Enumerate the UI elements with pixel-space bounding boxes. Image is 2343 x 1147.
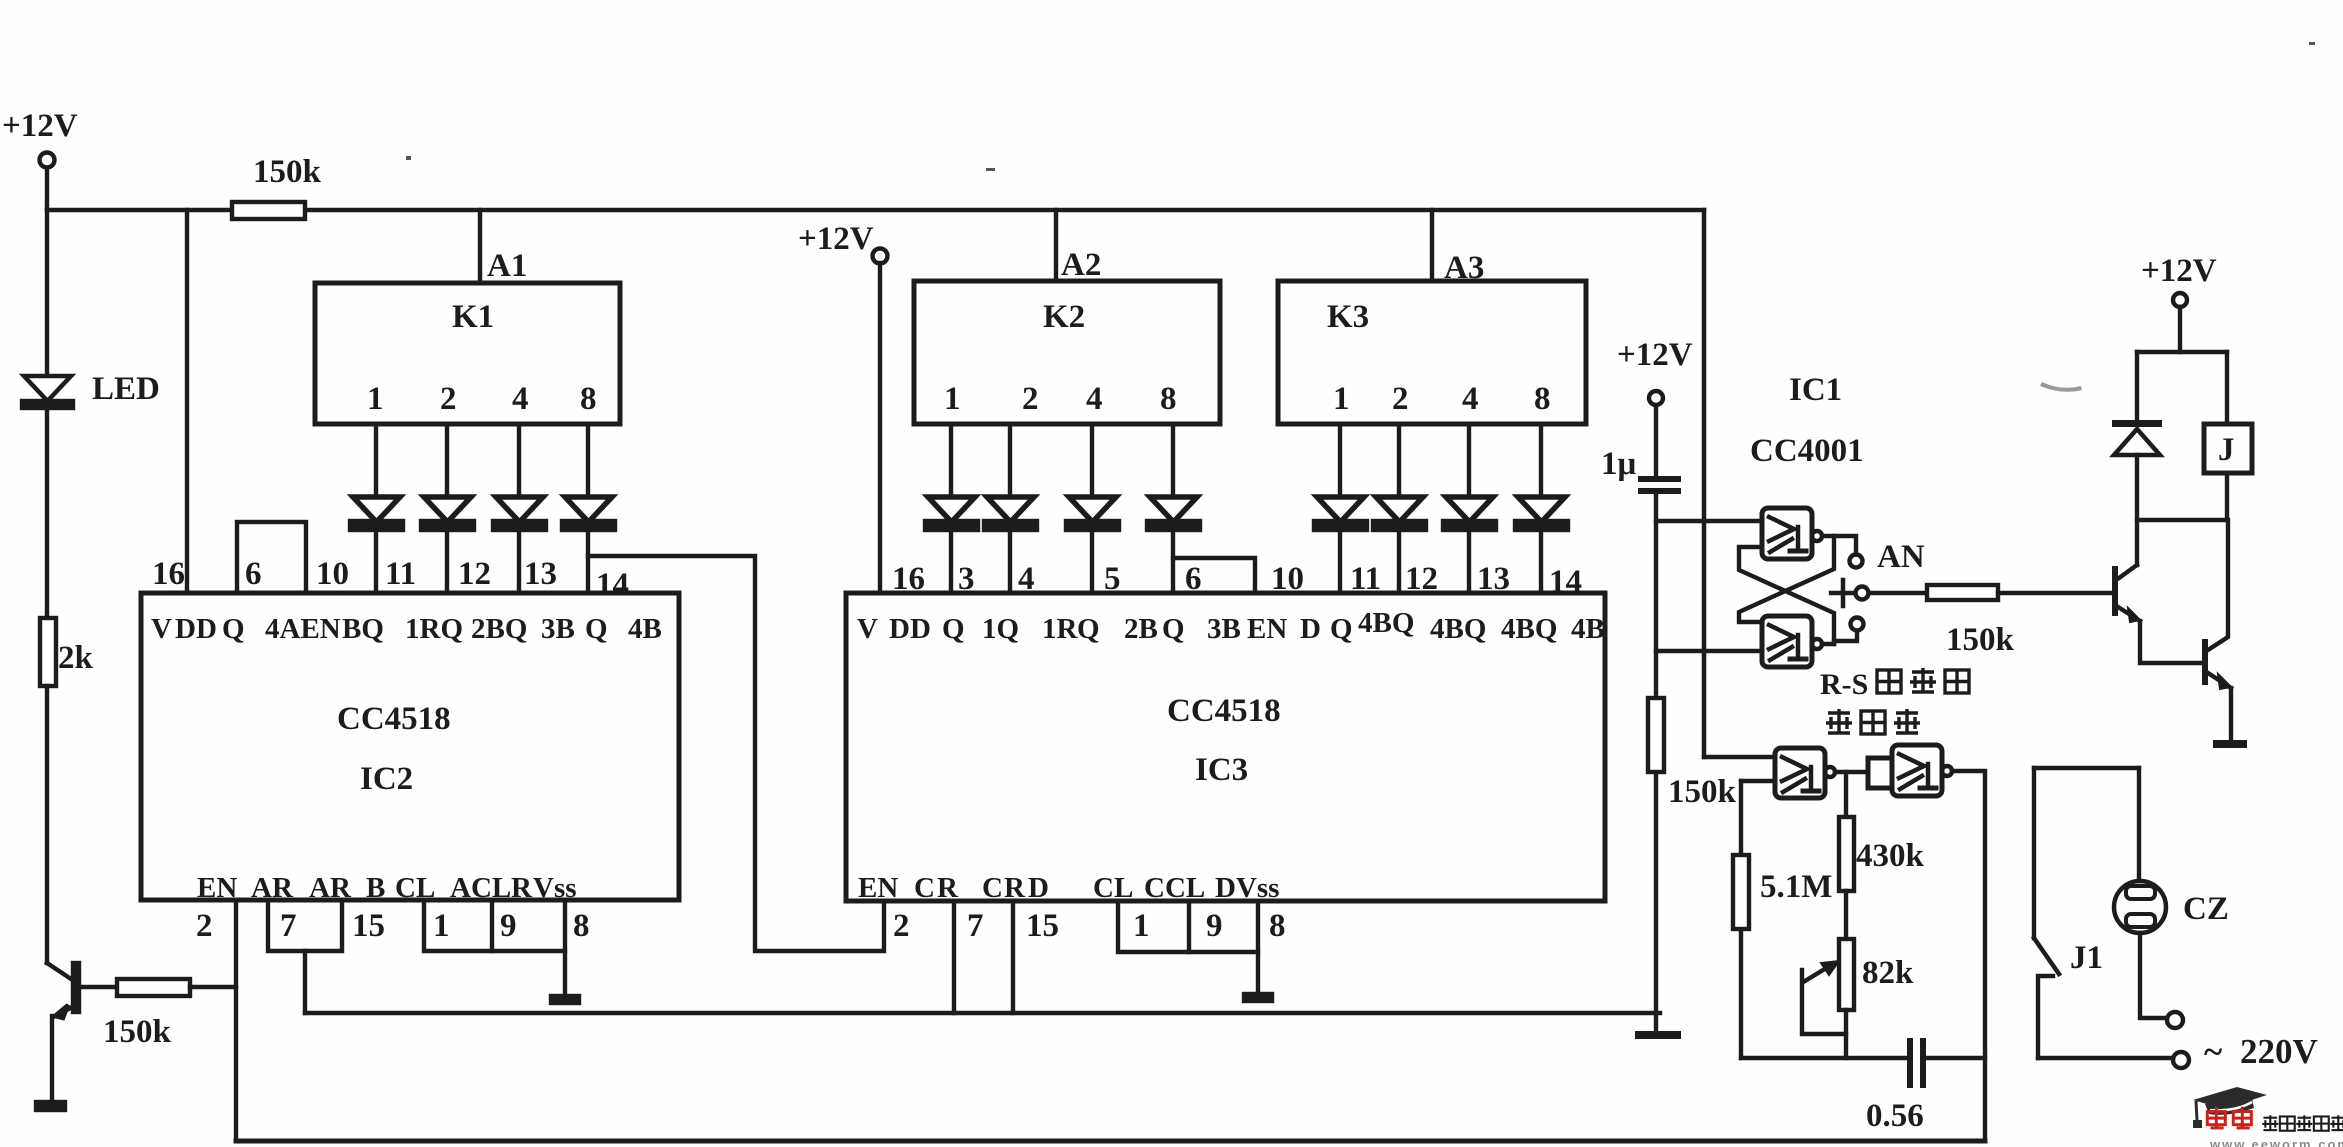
wire IC3 pin8 Vss [1256, 901, 1260, 994]
pin7-pin15 link box (IC2) [268, 900, 342, 951]
resistor 430k [1839, 817, 1854, 891]
svg-text:CL: CL [1093, 872, 1133, 904]
wire cap down to ground (node B) [1654, 494, 1658, 1031]
svg-text:AN: AN [1877, 539, 1925, 575]
svg-text:8: 8 [1160, 381, 1177, 417]
wire CZ bottom to 220V upper terminal [2140, 933, 2167, 1018]
svg-text:150k: 150k [253, 154, 322, 190]
resistor 5.1M [1733, 855, 1749, 929]
wire K2 pin4 [1090, 424, 1094, 497]
svg-text:www.eeworm.com: www.eeworm.com [2209, 1137, 2343, 1147]
labels IC2 bottom pin names [197, 872, 577, 904]
svg-text:13: 13 [1477, 561, 1510, 597]
svg-text:150k: 150k [1946, 622, 2015, 658]
wire diode branch [2135, 352, 2139, 420]
ground (Q1 emitter) [36, 1102, 65, 1110]
svg-text:D: D [1300, 613, 1321, 645]
svg-text:2BQ: 2BQ [471, 613, 527, 645]
wire AN pole to 150k [1869, 591, 1927, 595]
svg-text:IC3: IC3 [1195, 752, 1248, 788]
svg-text:8: 8 [573, 908, 590, 944]
svg-text:6: 6 [1185, 561, 1202, 597]
svg-text:4: 4 [512, 381, 529, 417]
resistor 2k [40, 618, 56, 686]
wire IC3 pin7 to ground rail [952, 901, 956, 1013]
svg-text:IC1: IC1 [1789, 372, 1842, 408]
svg-text:1: 1 [944, 381, 961, 417]
svg-text:ACL: ACL [450, 872, 511, 904]
svg-text:R: R [937, 872, 959, 904]
resistor 150k (vertical on node B) [1648, 698, 1664, 772]
svg-text:DD: DD [175, 613, 217, 645]
svg-text:AR: AR [251, 872, 294, 904]
svg-text:430k: 430k [1856, 838, 1925, 874]
wire D23 to IC3 pin5 [1090, 529, 1094, 593]
gate U1c symbol [1782, 757, 1807, 781]
pin9 link box (IC3) [1189, 950, 1258, 954]
transistor Q2 emitter [2118, 607, 2140, 621]
svg-text:6: 6 [245, 556, 262, 592]
svg-text:13: 13 [524, 556, 557, 592]
svg-text:~: ~ [2204, 1032, 2222, 1071]
svg-text:2: 2 [1392, 381, 1409, 417]
diode D13 [496, 497, 543, 522]
transistor Q2 base bar [2112, 566, 2118, 616]
svg-text:4BQ: 4BQ [1430, 613, 1486, 645]
wire D14 to IC2 pin14 [586, 529, 590, 593]
IC U2 CC4518 box [141, 593, 679, 900]
svg-text:DD: DD [889, 613, 931, 645]
svg-text:2k: 2k [58, 640, 94, 676]
svg-text:4: 4 [1018, 561, 1035, 597]
gate U1a output bubble [1812, 531, 1822, 541]
svg-text:4B: 4B [628, 613, 662, 645]
svg-text:2: 2 [440, 381, 457, 417]
diode D22 [987, 497, 1034, 522]
svg-text:A2: A2 [1061, 247, 1101, 283]
wire 430k branch down [1844, 772, 1848, 817]
svg-text:12: 12 [458, 556, 491, 592]
svg-text:4BQ: 4BQ [1501, 613, 1557, 645]
pin1 link box (IC3) [1118, 901, 1189, 952]
socket CZ body [2114, 881, 2166, 933]
resistor 150k (AN to Darlington) [1927, 585, 1998, 600]
svg-text:EN: EN [197, 872, 237, 904]
wire J1-CZ top rail [2034, 766, 2139, 770]
svg-text:CC4518: CC4518 [337, 701, 451, 737]
capacitor 0.56 [1907, 1038, 1913, 1088]
switch J1 blade [2034, 938, 2059, 974]
wire K2 pin8 [1171, 424, 1175, 497]
svg-text:10: 10 [1271, 561, 1304, 597]
svg-text:220V: 220V [2240, 1032, 2318, 1071]
wire +12V terminal to bus [45, 168, 49, 208]
pin6-pin10 link box (IC2) [237, 522, 306, 593]
svg-text:AR: AR [309, 872, 352, 904]
svg-text:3B: 3B [1207, 613, 1241, 645]
svg-text:Vss: Vss [533, 872, 577, 904]
label oscillator (chinese) [1826, 709, 1920, 734]
wire D31 to IC3 pin11 [1338, 529, 1342, 593]
wire Q3 emitter to ground [2229, 688, 2233, 741]
svg-text:R-S: R-S [1820, 668, 1868, 701]
svg-text:CZ: CZ [2183, 891, 2229, 927]
gate U1d input stub box [1868, 758, 1892, 788]
svg-text:Q: Q [222, 613, 245, 645]
svg-text:8: 8 [1269, 908, 1286, 944]
svg-text:12: 12 [1405, 561, 1438, 597]
wire D24 to IC3 pin6 [1171, 529, 1175, 593]
switch AN pole tick [1841, 580, 1846, 606]
svg-text:82k: 82k [1862, 955, 1914, 991]
wire D32 to IC3 pin12 [1397, 529, 1401, 593]
svg-text:2: 2 [196, 908, 213, 944]
svg-text:150k: 150k [1668, 774, 1737, 810]
wire bottom rail [236, 1139, 1985, 1144]
gate U1b symbol [1769, 625, 1794, 649]
wire K2 pin1 [949, 424, 953, 497]
wire J1 to 220V lower terminal [2038, 1056, 2173, 1060]
diode D11 [353, 497, 400, 522]
wire pot bottom to RC rail [1844, 1010, 1848, 1058]
gate U1d output bubble [1942, 766, 1952, 776]
watermark red chongchong characters [2207, 1107, 2225, 1128]
diode D21 [928, 497, 975, 522]
wire node A1 feeder [478, 210, 482, 283]
wire node A2 feeder [1054, 210, 1058, 281]
svg-text:Q: Q [1162, 613, 1185, 645]
capacitor 1u [1638, 476, 1681, 482]
svg-text:1: 1 [433, 908, 450, 944]
wire D13 to IC2 pin13 [517, 529, 521, 593]
transistor Q3 base bar [2202, 639, 2208, 685]
svg-text:7: 7 [967, 908, 984, 944]
wire J1 lower leg [2038, 976, 2053, 1058]
wire IC3 pin15 to ground rail [1011, 901, 1015, 1013]
wire K1 pin8 [586, 424, 590, 497]
relay K2 box [914, 281, 1220, 424]
svg-text:V: V [151, 613, 172, 645]
svg-text:CC4518: CC4518 [1167, 693, 1281, 729]
diode D12 [424, 497, 471, 522]
svg-text:8: 8 [580, 381, 597, 417]
wire J to bottom rail [2225, 473, 2229, 520]
wire 150k to Q2 base [1998, 591, 2113, 595]
svg-text:8: 8 [1534, 381, 1551, 417]
svg-text:1: 1 [367, 381, 384, 417]
wire D11 to IC2 pin11 [374, 529, 378, 593]
svg-text:2B: 2B [1124, 613, 1158, 645]
svg-text:4BQ: 4BQ [1358, 607, 1414, 639]
wire terminal to coil rail [2178, 307, 2182, 352]
relay K1 box [315, 283, 620, 424]
wire ground rail (middle) [305, 1011, 1660, 1016]
svg-text:3: 3 [958, 561, 975, 597]
wire relay branch [2225, 352, 2229, 424]
labels IC2 top pin names [151, 613, 662, 645]
wire D21 to IC3 pin3 [949, 529, 953, 593]
svg-text:CL: CL [395, 872, 435, 904]
svg-text:J: J [2218, 432, 2235, 468]
svg-text:3B: 3B [541, 613, 575, 645]
svg-text:Q: Q [585, 613, 608, 645]
diode LED [24, 376, 71, 401]
svg-text:EN: EN [1247, 613, 1287, 645]
wire diode to bottom rail [2135, 455, 2139, 565]
svg-text:DVss: DVss [1215, 872, 1279, 904]
svg-text:1: 1 [1133, 908, 1150, 944]
wire Q2 emitter to Q3 base [2140, 621, 2202, 663]
socket CZ hole upper [2126, 886, 2155, 899]
wire U1b output to AN bottom contact [1822, 631, 1857, 644]
wire D22 to IC3 pin4 [1008, 529, 1012, 593]
diode freewheel (across J) [2112, 420, 2162, 427]
svg-text:5: 5 [1104, 561, 1121, 597]
svg-text:9: 9 [1206, 908, 1223, 944]
wire +12V bus (top horizontal) [47, 208, 1704, 213]
gate U1a symbol [1769, 517, 1794, 541]
svg-text:10: 10 [316, 556, 349, 592]
wire K3 pin2 [1397, 424, 1401, 497]
gate U1c box [1775, 748, 1825, 798]
wire RS gate1 input [1656, 519, 1762, 523]
wire IC2 4B carry to IC3 EN [588, 556, 884, 951]
svg-text:Q: Q [1077, 613, 1100, 645]
svg-text:15: 15 [352, 908, 385, 944]
svg-text:4: 4 [1462, 381, 1479, 417]
svg-text:+12V: +12V [1617, 337, 1693, 373]
transistor Q3 emitter [2208, 673, 2231, 688]
resistor 150k (Q1 base) [117, 979, 190, 996]
wire Q1 base [79, 985, 117, 989]
labels IC3 top pin names [857, 607, 1605, 645]
scan specks [406, 42, 2315, 392]
wire IC2 pin2 EN down [234, 900, 238, 1141]
pin1 link box (IC2) [424, 900, 492, 951]
socket CZ hole lower [2126, 914, 2155, 927]
wire J1 upper leg [2032, 768, 2036, 938]
wire U1a output to AN top contact [1822, 536, 1856, 554]
gate U1d box [1892, 745, 1942, 796]
svg-text:LED: LED [92, 371, 160, 407]
node +12V terminal (middle) [873, 249, 888, 264]
gate U1c output bubble [1825, 767, 1835, 777]
svg-text:A3: A3 [1444, 250, 1484, 286]
ground (Q3 emitter) [2213, 740, 2247, 748]
watermark graduation cap [2193, 1087, 2267, 1109]
svg-text:1R: 1R [1042, 613, 1079, 645]
svg-text:14: 14 [596, 567, 629, 603]
svg-text:D: D [1028, 872, 1049, 904]
svg-text:14: 14 [1549, 564, 1582, 600]
wire coil bottom rail [2137, 518, 2227, 522]
wire K1 pin4 [517, 424, 521, 497]
wire D34 to IC3 pin14 [1539, 529, 1543, 593]
wire rail to Q3 collector [2119, 565, 2137, 578]
wire feedback rail with 5.1M [1739, 781, 1743, 1058]
svg-text:B: B [366, 872, 385, 904]
wire K3 pin8 [1539, 424, 1543, 497]
wire K1 pin1 [374, 424, 378, 497]
wire RC bottom rail [1741, 1056, 1985, 1060]
svg-text:K1: K1 [452, 299, 494, 335]
wire U1b output cross-couple to U1a input [1739, 547, 1834, 644]
svg-text:0.56: 0.56 [1866, 1098, 1924, 1134]
gate U1b box [1762, 616, 1812, 667]
wire IC2 pin8 Vss [563, 900, 567, 996]
svg-text:CC4001: CC4001 [1750, 433, 1864, 469]
wire RS gate2 input [1656, 649, 1762, 653]
svg-text:BQ: BQ [342, 613, 384, 645]
wire K3 pin4 [1467, 424, 1471, 497]
svg-text:J1: J1 [2070, 940, 2103, 976]
svg-text:11: 11 [1350, 561, 1381, 597]
svg-text:+12V: +12V [798, 221, 874, 257]
wire Q3 collector [2208, 520, 2228, 650]
watermark site name characters [2262, 1115, 2278, 1130]
svg-text:A1: A1 [487, 248, 527, 284]
wire wiper to pot bottom [1802, 970, 1846, 1034]
svg-text:Q: Q [942, 613, 965, 645]
node AN pole [1856, 587, 1869, 600]
wire 2k to Q1 collector [45, 686, 49, 963]
wire K1 pin2 [445, 424, 449, 497]
svg-text:EN: EN [858, 872, 898, 904]
svg-text:15: 15 [1026, 908, 1059, 944]
gate U1d symbol [1899, 754, 1924, 778]
svg-text:7: 7 [280, 908, 297, 944]
wire D33 to IC3 pin13 [1467, 529, 1471, 593]
svg-text:R: R [511, 872, 533, 904]
svg-text:16: 16 [152, 556, 185, 592]
diode D33 [1446, 497, 1493, 522]
diode D24 [1150, 497, 1197, 522]
pot wiper arrow [1805, 967, 1828, 981]
node +12V terminal (relay) [2173, 293, 2187, 307]
gate U1b output bubble [1812, 639, 1822, 649]
svg-text:2: 2 [893, 908, 910, 944]
wire U1a output cross-couple to U1b input [1739, 536, 1834, 622]
label R-S flip-flop (chinese) [1820, 668, 1969, 701]
svg-text:R: R [1004, 872, 1026, 904]
gate U1a box [1762, 508, 1812, 559]
wire U1c out to U1d in [1835, 770, 1868, 774]
wire K2 pin2 [1008, 424, 1012, 497]
wire D12 to IC2 pin12 [445, 529, 449, 593]
svg-text:C: C [914, 872, 935, 904]
node ~220V upper terminal [2167, 1012, 2183, 1028]
svg-text:1: 1 [1333, 381, 1350, 417]
IC U3 CC4518 box [846, 593, 1605, 901]
svg-text:K3: K3 [1327, 299, 1369, 335]
relay K3 box [1278, 281, 1586, 424]
diode D31 [1317, 497, 1364, 522]
wire bus-end to osc gate3 input [1704, 755, 1775, 759]
node AN top contact [1850, 555, 1863, 568]
ground (IC3 Vss) [1244, 994, 1272, 1001]
resistor 150k (series in +12V bus) [232, 202, 305, 219]
svg-text:4B: 4B [1571, 613, 1605, 645]
svg-text:K2: K2 [1043, 299, 1085, 335]
svg-text:IC2: IC2 [360, 761, 413, 797]
wire terminal to capacitor [1654, 405, 1658, 476]
ground (IC2 Vss) [551, 996, 579, 1003]
svg-text:1μ: 1μ [1601, 446, 1637, 482]
wire feedback rail to U1c input [1741, 779, 1775, 783]
svg-text:4AEN: 4AEN [265, 613, 341, 645]
node +12V terminal (IC1) [1649, 391, 1663, 405]
svg-text:2: 2 [1022, 381, 1039, 417]
labels IC3 bottom pin names [858, 872, 1279, 904]
svg-text:+12V: +12V [2141, 253, 2217, 289]
diode D32 [1376, 497, 1423, 522]
svg-text:150k: 150k [103, 1014, 172, 1050]
wire LED to 2k [45, 408, 49, 618]
wire U1d output down to bottom rail [1952, 771, 1985, 1141]
node AN bottom contact [1851, 618, 1864, 631]
node ~220V lower terminal [2173, 1052, 2189, 1068]
relay coil J box [2204, 424, 2252, 473]
svg-text:4: 4 [1086, 381, 1103, 417]
diode D23 [1069, 497, 1116, 522]
svg-text:CCL: CCL [1144, 872, 1205, 904]
wire CZ top [2137, 768, 2141, 881]
svg-text:V: V [857, 613, 878, 645]
svg-text:11: 11 [385, 556, 416, 592]
svg-text:1Q: 1Q [982, 613, 1019, 645]
wire coil top rail [2137, 350, 2227, 354]
diode D34 [1518, 497, 1565, 522]
wire K3 pin1 [1338, 424, 1342, 497]
wire 430k to 82k [1844, 891, 1848, 939]
wire pin7 box to ground rail [303, 951, 307, 1013]
wire bus corner down (right end of bus) [1702, 210, 1707, 757]
wire +12V terminal2 to IC3 pin16 [878, 263, 882, 593]
node +12V terminal (top-left) [40, 153, 55, 168]
potentiometer 82k [1839, 939, 1854, 1010]
svg-text:5.1M: 5.1M [1760, 869, 1832, 905]
svg-text:Q: Q [1330, 613, 1353, 645]
wire bus tap to IC2 pin16 [185, 210, 189, 593]
svg-text:9: 9 [500, 908, 517, 944]
wire node A3 feeder [1430, 210, 1434, 281]
ground (node B bottom) [1635, 1031, 1681, 1039]
wire 150k to IC2 pin2 line [190, 985, 236, 989]
pin6-pin10 link box (IC3) [1173, 558, 1255, 593]
svg-text:1RQ: 1RQ [405, 613, 463, 645]
wire LED branch [45, 210, 49, 375]
svg-text:C: C [982, 872, 1003, 904]
transistor Q1 (left driver) [47, 963, 74, 981]
diode D14 [565, 497, 612, 522]
pin9 link box (IC2) [492, 949, 565, 953]
svg-text:16: 16 [892, 561, 925, 597]
svg-text:+12V: +12V [2, 108, 78, 144]
